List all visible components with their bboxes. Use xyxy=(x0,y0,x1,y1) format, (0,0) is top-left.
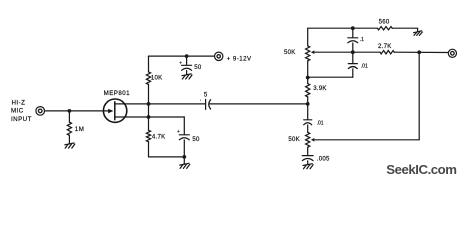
wire: source ground bus xyxy=(149,156,185,158)
resistor R2 10K (drain load) xyxy=(146,72,150,85)
value label 50K (R6) xyxy=(288,136,300,143)
svg-text:50: 50 xyxy=(192,136,200,143)
wire: C3 to tone network xyxy=(210,103,308,105)
resistor R8 2.7K xyxy=(380,51,394,54)
junction: supply rail / C1 xyxy=(185,54,189,58)
svg-text:50K: 50K xyxy=(288,136,300,143)
supply terminal +9-12V xyxy=(215,52,223,60)
ground: source network xyxy=(180,163,190,168)
ground: below C1 xyxy=(182,74,192,79)
ground: below R1 xyxy=(65,143,75,148)
wire: stub to ground xyxy=(183,157,185,164)
wire: signal node to C6 xyxy=(307,104,309,120)
svg-text:.005: .005 xyxy=(317,155,330,162)
junction: R4 bottom / C5 return xyxy=(306,76,310,80)
svg-text:560: 560 xyxy=(379,19,390,26)
capacitor C4 .1 xyxy=(348,28,358,52)
wire: R7 to ground corner xyxy=(392,28,417,31)
svg-text:MIC: MIC xyxy=(11,108,24,115)
svg-text:.01: .01 xyxy=(361,64,368,70)
svg-text:INPUT: INPUT xyxy=(11,116,32,123)
value label 50 (C2) xyxy=(192,136,200,143)
transistor Q1 MEP801 FET xyxy=(103,99,126,122)
capacitor C7 .005 xyxy=(302,156,313,161)
wire: drain to C3 xyxy=(149,103,206,105)
capacitor C5 .01 xyxy=(348,52,357,77)
wire: C7 to ground xyxy=(307,161,309,164)
wire: C5 return to R4 bottom xyxy=(308,76,353,78)
capacitor C6 .01 (bass chain) xyxy=(304,120,312,125)
value label 50 (C1) xyxy=(194,64,202,71)
value label 10K xyxy=(151,74,163,81)
node: HI-Z MIC INPUT label xyxy=(11,100,32,123)
junction: drain node xyxy=(147,102,151,106)
ground: after R7 xyxy=(414,31,423,36)
wire: Q1 source lead xyxy=(115,116,185,118)
net label +9-12V xyxy=(227,55,252,62)
value label 1M xyxy=(75,126,85,133)
wire: C6 to R6 xyxy=(307,125,309,132)
resistor R7 560 xyxy=(377,27,392,30)
value label .5 xyxy=(200,91,208,102)
wire: vertical between drain and source nodes xyxy=(148,104,150,117)
svg-text:2.7K: 2.7K xyxy=(378,43,392,50)
svg-text:+: + xyxy=(177,129,180,135)
label MEP801 xyxy=(104,90,131,97)
value label 50K (R4) xyxy=(284,49,296,56)
wire: input terminal to Q1 gate xyxy=(45,110,110,112)
resistor R1 1M (gate to ground) xyxy=(67,111,71,143)
svg-text:MEP801: MEP801 xyxy=(104,90,131,97)
wire: source resistor branch xyxy=(148,117,150,157)
wire: tone top rail xyxy=(308,27,378,29)
svg-text:4.7K: 4.7K xyxy=(152,133,166,140)
value label 560 xyxy=(379,19,390,26)
watermark SeekIC.com xyxy=(386,162,456,177)
polarity + for C2 xyxy=(177,129,180,135)
potentiometer R4 50K (treble) xyxy=(306,46,380,61)
wire: R5 to signal node xyxy=(307,97,309,104)
wire: R8 to output xyxy=(394,51,448,53)
junction: input node / R1 top xyxy=(68,109,72,113)
svg-text:SeekIC.com: SeekIC.com xyxy=(386,162,456,177)
wire: output feedback vertical xyxy=(418,52,420,140)
ground: below C7 xyxy=(303,164,313,169)
svg-text:.: . xyxy=(200,95,202,102)
svg-text:50: 50 xyxy=(194,64,202,71)
capacitor C1 50uF (supply bypass) xyxy=(182,56,192,74)
svg-text:10K: 10K xyxy=(151,74,163,81)
svg-text:3.9K: 3.9K xyxy=(313,85,327,92)
input terminal J1 (HI-Z mic input) xyxy=(36,107,45,116)
output terminal J2 xyxy=(448,49,456,57)
junction: wiper bus / C5 xyxy=(351,50,355,54)
resistor R3 4.7K (source) xyxy=(146,130,150,141)
wire: R6 to C7 xyxy=(307,147,309,155)
wire: top supply rail xyxy=(149,55,215,57)
svg-text:.01: .01 xyxy=(317,120,324,126)
polarity + for C1 xyxy=(179,60,182,66)
potentiometer R6 50K (bass) xyxy=(306,132,420,147)
wire: to R5 xyxy=(307,78,309,84)
resistor R5 3.9K xyxy=(306,84,310,97)
value label .01 (C5) xyxy=(361,64,368,70)
svg-text:1M: 1M xyxy=(75,126,85,133)
junction: ground bus xyxy=(182,155,186,159)
svg-text:+: + xyxy=(179,60,182,66)
wire: V+ rail vertical (10K branch) xyxy=(148,56,150,104)
svg-text:+ 9-12V: + 9-12V xyxy=(227,55,252,62)
svg-text:5: 5 xyxy=(204,91,208,98)
wire: tone chain top segment xyxy=(307,28,309,77)
value label .1 xyxy=(360,37,364,43)
value label 4.7K xyxy=(152,133,166,140)
junction: top rail / C4 xyxy=(351,26,355,30)
junction: signal node xyxy=(306,102,310,106)
capacitor C3 .5uF (coupling) xyxy=(206,99,211,109)
value label .005 xyxy=(317,155,330,162)
value label .01 (C6) xyxy=(317,120,324,126)
svg-text:50K: 50K xyxy=(284,49,296,56)
capacitor C2 50uF (source bypass) xyxy=(179,117,189,157)
value label 3.9K xyxy=(313,85,327,92)
svg-text:.1: .1 xyxy=(360,37,364,43)
value label 2.7K xyxy=(378,43,392,50)
svg-text:HI-Z: HI-Z xyxy=(12,100,26,107)
junction: source node xyxy=(147,115,151,119)
junction: output node xyxy=(417,50,421,54)
wire: Q1 drain lead xyxy=(115,103,149,105)
